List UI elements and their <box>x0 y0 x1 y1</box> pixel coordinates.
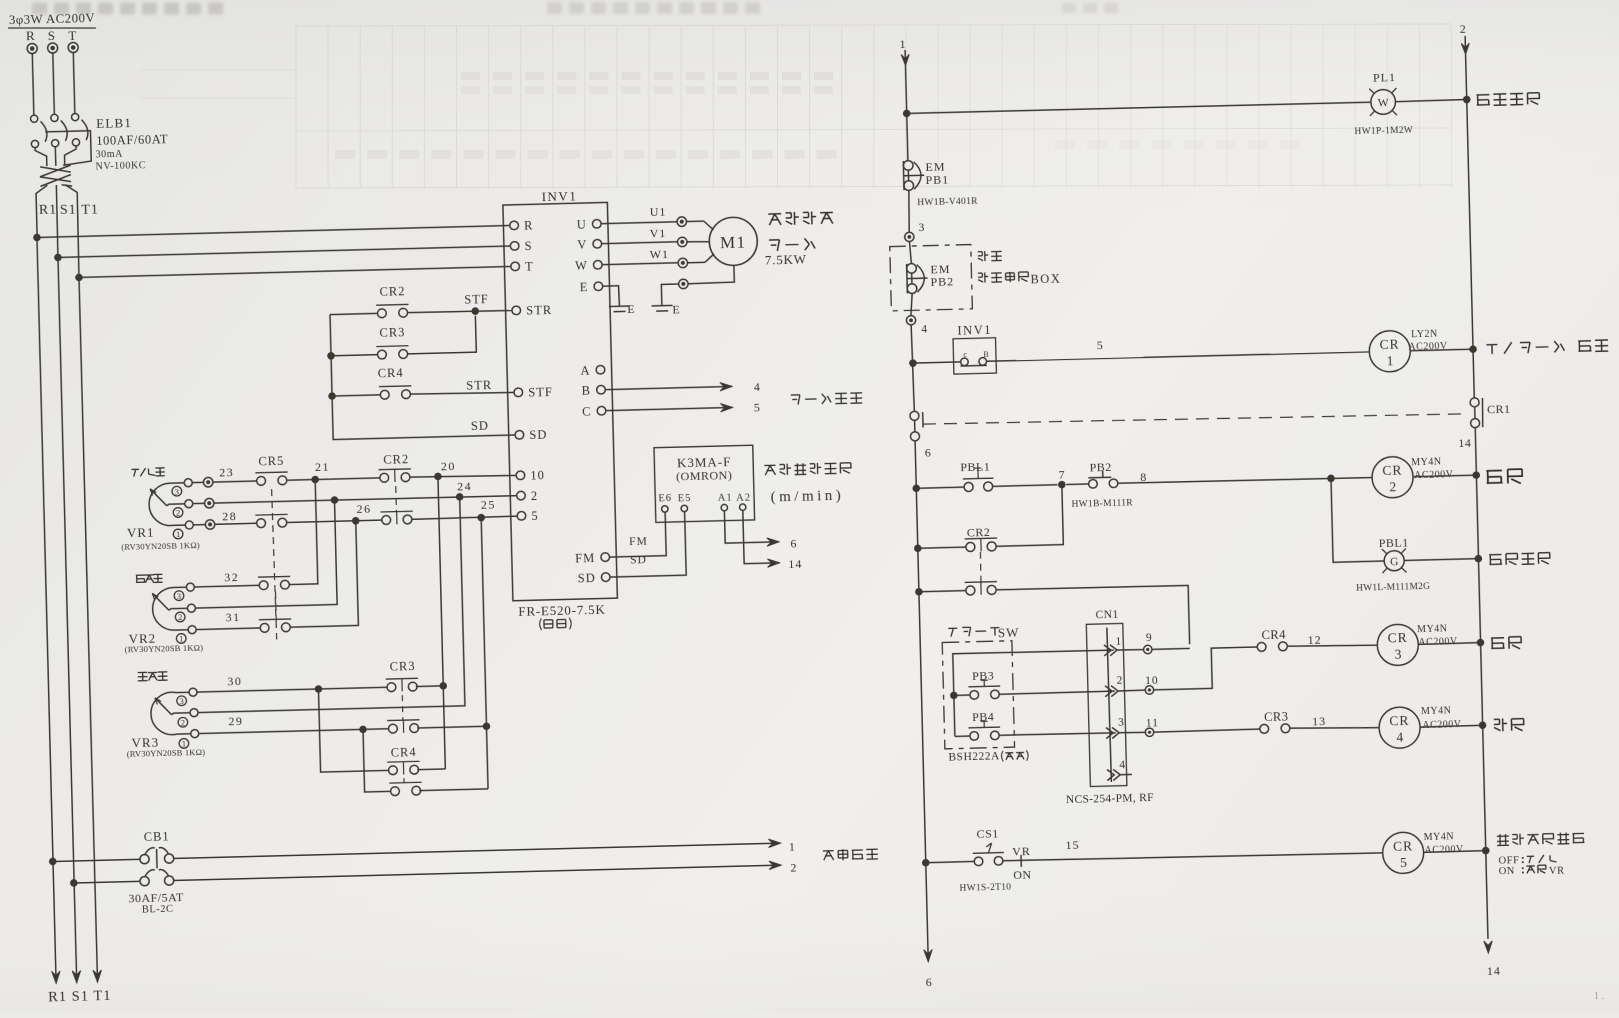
svg-text:CR: CR <box>1387 630 1407 646</box>
wire ELB1 pole T to ZCT <box>64 146 76 166</box>
svg-text:S: S <box>524 239 532 253</box>
wire inverter U to motor <box>602 222 678 224</box>
connector CN1 spine <box>1107 628 1112 782</box>
wire terminal 10 up to forward rung <box>1153 647 1258 690</box>
inverter pin W <box>593 260 602 269</box>
breaker ELB1 pole S <box>51 114 58 121</box>
svg-text:10: 10 <box>530 468 545 482</box>
svg-text:11: 11 <box>1146 717 1159 729</box>
svg-text:4: 4 <box>921 323 928 335</box>
inverter pin FM <box>601 553 610 562</box>
breaker CB1 trip line <box>156 849 158 868</box>
pushbutton EM PB1 (NC emergency) <box>902 161 905 190</box>
terminal 28 <box>193 524 205 526</box>
node on 20-vertical <box>439 682 447 690</box>
inverter pin SD <box>515 430 524 439</box>
svg-text:BL-2C: BL-2C <box>142 904 174 916</box>
label リモートSW <box>948 627 999 637</box>
svg-text:CR: CR <box>1389 713 1409 729</box>
inverter pin 2 <box>517 491 526 500</box>
svg-text:25: 25 <box>481 498 496 512</box>
wire CR2 contact to STR pin <box>408 310 512 313</box>
svg-text:100AF/60AT: 100AF/60AT <box>96 132 168 148</box>
node 30 branch <box>315 685 323 693</box>
svg-text:V1: V1 <box>649 226 666 240</box>
wire node4 down rail <box>911 325 914 411</box>
relay coil CR1 <box>1369 330 1411 372</box>
wire T1 to inverter T <box>79 266 511 277</box>
wire R1 to inverter R <box>37 226 510 238</box>
node 21 <box>287 478 380 480</box>
contact CR3 (to STR) <box>376 346 409 359</box>
wire terminal 11 to CR3 contact <box>1154 729 1260 732</box>
label 引取速度表示 (m/min) <box>764 462 851 475</box>
inverter pin STR <box>512 306 521 315</box>
svg-text:SD: SD <box>529 428 547 442</box>
label manual 手動用 <box>136 574 163 583</box>
svg-text:CR3: CR3 <box>379 325 405 340</box>
svg-text:CR2: CR2 <box>379 284 405 299</box>
wire CR4 contact to STF pin <box>410 391 514 395</box>
contact CR2 pole2 (row 5) <box>381 511 414 525</box>
wire PB3 to CN1 pin2 <box>999 691 1115 694</box>
wire CR3 contact to CR4 coil, wire 13 <box>1290 726 1379 730</box>
wire PB2 to node 4 <box>910 293 912 315</box>
contact CR5 pole4 (31) <box>259 619 292 632</box>
svg-text:4: 4 <box>754 380 761 394</box>
svg-text:5: 5 <box>1400 855 1407 870</box>
svg-text:1: 1 <box>176 529 181 539</box>
label 外部 非常停止BOX <box>978 251 1002 262</box>
wire inverter C fault contact <box>606 407 732 410</box>
wire inverter E pin to earth <box>603 286 620 306</box>
label インバータ 正常 <box>1486 340 1608 354</box>
wire CR4 pole2 out up to 25-vertical <box>419 789 488 791</box>
label dancer ダンサ用 <box>131 468 164 477</box>
wire INV1 contact to CR1 coil, wire number 5 <box>987 352 1370 362</box>
svg-text:2: 2 <box>531 489 539 503</box>
mechanical link CR2 contacts <box>980 552 981 586</box>
svg-text:R1: R1 <box>39 203 58 218</box>
contact CR2 holding <box>918 547 966 548</box>
potentiometer VR2 (manual) <box>186 583 194 591</box>
svg-text:1: 1 <box>1115 636 1122 648</box>
svg-text:32: 32 <box>224 570 239 584</box>
node right rail CR1 <box>1469 345 1477 353</box>
svg-text:A1: A1 <box>718 493 733 504</box>
inverter INV1 box <box>503 202 617 600</box>
svg-text:6: 6 <box>926 975 933 989</box>
breaker ELB1 pole R <box>30 115 37 122</box>
inverter run contact INV1 box <box>953 338 996 374</box>
mechanical link CR4 poles <box>403 778 405 783</box>
wire CR2 remote feed to terminal 9 drop <box>996 585 1190 649</box>
wire 29 row <box>199 729 388 734</box>
mechanical link CR5 chain <box>272 489 277 639</box>
node VR2 wiper joins <box>331 496 339 504</box>
terminal 10 <box>1118 689 1145 692</box>
wire left rail lower <box>915 441 928 948</box>
label 速度設定切換 <box>1497 832 1585 845</box>
terminal 9 <box>1117 648 1143 651</box>
VR1 terminal numbers <box>172 486 182 496</box>
earth-leakage ZCT zigzag winding <box>40 165 73 187</box>
svg-text:HW1S-2T10: HW1S-2T10 <box>959 883 1011 894</box>
svg-text:T1: T1 <box>81 203 99 218</box>
wire vertical from node 20 <box>438 476 445 769</box>
svg-text:CR1: CR1 <box>1487 402 1511 417</box>
svg-text:(m/min): (m/min) <box>770 488 844 506</box>
inverter pin R <box>510 221 519 230</box>
wire CR3 contact up to STF junction <box>407 316 477 354</box>
label 正転 <box>1491 637 1521 650</box>
wire ELB1 pole S to ZCT <box>54 147 57 166</box>
VR position mark on CS1 wire <box>1020 855 1022 867</box>
svg-text:PB1: PB1 <box>925 172 949 187</box>
inverter pin E <box>594 282 603 291</box>
node 29 branch <box>359 725 367 733</box>
wire rail contact segments <box>914 420 916 431</box>
wire bus to CR4 contact <box>332 395 380 396</box>
wire control power line 1 <box>49 858 57 866</box>
contact CR2 remote feed <box>919 591 966 592</box>
VR3 terminal numbers <box>177 696 187 706</box>
svg-text:R: R <box>26 28 36 43</box>
svg-text:CS1: CS1 <box>976 826 999 841</box>
svg-text:CR: CR <box>1393 838 1413 854</box>
svg-text:PB3: PB3 <box>972 668 995 683</box>
breaker ELB1 pole T <box>71 113 78 120</box>
wire A1 output <box>724 510 779 544</box>
inverter pin T <box>511 262 520 271</box>
wire R phase drop to ELB1 <box>32 54 34 115</box>
svg-text:3: 3 <box>175 486 180 496</box>
connector CN1 pin 1 <box>1104 645 1117 656</box>
wire T1 vertical bus <box>79 277 97 969</box>
inverter pin V <box>593 239 602 248</box>
contact CR5 pole3 (32) <box>258 576 291 589</box>
svg-text:(RV30YN20SB 1KΩ): (RV30YN20SB 1KΩ) <box>127 747 206 759</box>
inverter pin 5 <box>517 511 526 520</box>
svg-text:ON: ON <box>1013 868 1032 882</box>
wire S1 to inverter S <box>58 246 510 257</box>
svg-text:NV-100KC: NV-100KC <box>95 160 146 172</box>
wire rail to INV1 contact <box>913 362 961 363</box>
svg-text:R: R <box>524 218 534 232</box>
inverter pin U <box>592 219 601 228</box>
svg-text:VR: VR <box>1012 844 1031 858</box>
contact CR4 (to STF) <box>379 386 412 399</box>
wire motor earth lead <box>688 265 735 283</box>
svg-text:ELB1: ELB1 <box>96 115 132 131</box>
wire PL1 to right rail <box>1395 100 1466 102</box>
node on 25-vertical <box>483 722 491 730</box>
svg-text:S: S <box>48 28 57 43</box>
ground symbol at inverter <box>609 305 630 308</box>
contact CR4 interlock (forward) <box>1257 642 1287 652</box>
meter terminal E5 <box>681 505 688 512</box>
mechanical link CR2 chain <box>395 486 398 512</box>
node R1 junction <box>33 234 41 242</box>
node PL1 rung junction <box>903 110 911 118</box>
mechanical link CR3 poles <box>401 695 404 720</box>
wire ZCT to S1 drop <box>56 185 58 257</box>
ground symbol at motor <box>652 304 673 307</box>
svg-text:INV1: INV1 <box>957 323 992 338</box>
wire SD common bus <box>330 310 515 440</box>
terminal 11 <box>1119 731 1145 734</box>
node T1 junction <box>75 274 83 282</box>
svg-text:A: A <box>580 364 590 378</box>
node CS1 rung junction <box>922 859 930 867</box>
contact CR5 pole1 <box>213 481 257 482</box>
svg-text:1 .: 1 . <box>1594 991 1604 1002</box>
node S1 junction <box>54 254 62 262</box>
svg-text:SD: SD <box>471 419 489 433</box>
wire 29 branch down to CR4 pole2 <box>363 729 391 792</box>
svg-text:HW1B-V401R: HW1B-V401R <box>917 196 978 208</box>
svg-text:12: 12 <box>1307 633 1321 647</box>
contact CR1 pickup on left rail <box>910 411 919 420</box>
selector switch CS1 <box>926 861 974 862</box>
svg-text:E5: E5 <box>678 493 692 504</box>
svg-text:AC200V: AC200V <box>1422 719 1462 731</box>
svg-text:ON: ON <box>1499 866 1515 877</box>
wire S phase drop to ELB1 <box>53 53 55 114</box>
svg-text:7.5KW: 7.5KW <box>765 251 807 267</box>
breaker CB1 pole 1 <box>140 854 149 863</box>
svg-text:SW: SW <box>998 625 1020 641</box>
svg-text:A2: A2 <box>736 493 751 504</box>
inverter pin A <box>596 365 605 374</box>
svg-text:W1: W1 <box>650 247 670 261</box>
wire CR4 coil to right rail <box>1420 725 1482 727</box>
wire right rail segments at CR1 contact <box>1474 407 1476 419</box>
svg-text:2: 2 <box>1116 675 1123 687</box>
wire VR3 wiper to node 24 <box>193 497 465 713</box>
wire 32 contact up to node 21 <box>286 480 317 585</box>
svg-text:30mA: 30mA <box>95 149 123 161</box>
svg-text:4: 4 <box>1119 759 1126 771</box>
svg-text:1: 1 <box>789 839 796 853</box>
node 25 <box>412 516 517 519</box>
wire CR3 pole out to 20-vertical <box>416 685 443 688</box>
wire bus to CR3 contact <box>331 355 377 356</box>
svg-text:3: 3 <box>1394 647 1401 662</box>
terminal 23 <box>192 481 203 483</box>
svg-text:9: 9 <box>1146 632 1153 644</box>
wire inverter W to motor <box>603 263 679 265</box>
wire CR2 coil to right rail <box>1413 475 1476 477</box>
wire T phase drop to ELB1 <box>73 52 75 113</box>
svg-text:2: 2 <box>178 612 183 622</box>
svg-text:29: 29 <box>228 714 243 728</box>
wire SD to E5 <box>609 512 686 577</box>
svg-text:VR: VR <box>1549 866 1565 877</box>
wire vertical from node 25 <box>481 518 488 789</box>
wire terminal 9 to CR2 remote feed <box>1152 647 1190 650</box>
node CR2 holding rung junction <box>914 544 922 552</box>
inverter pin STF <box>514 388 523 397</box>
meter terminal A1 <box>721 504 728 511</box>
svg-text:BOX: BOX <box>1030 271 1061 286</box>
svg-text:PB2: PB2 <box>1089 460 1112 475</box>
svg-text:NCS-254-PM, RF: NCS-254-PM, RF <box>1066 792 1154 806</box>
pushbutton PB3 (forward) <box>954 694 970 696</box>
label (三菱) <box>540 618 572 630</box>
contact CR5 pole2 (row 5) <box>215 523 257 524</box>
svg-text:CR4: CR4 <box>391 745 417 760</box>
svg-text:HW1P-1M2W: HW1P-1M2W <box>1354 126 1413 137</box>
svg-text:CR: CR <box>1379 337 1399 353</box>
wire left rail upper <box>905 50 908 161</box>
svg-text:c: c <box>963 350 968 359</box>
motor M1 <box>709 217 758 266</box>
terminal W1 <box>678 258 688 268</box>
svg-text:U: U <box>577 218 587 232</box>
svg-text:STR: STR <box>466 378 492 393</box>
wire CR3 coil to right rail <box>1418 643 1480 645</box>
svg-text:U1: U1 <box>650 205 667 219</box>
mechanical dashed link CR1 <box>923 410 1469 427</box>
wire remote common <box>953 650 1116 737</box>
svg-text:CR2: CR2 <box>967 525 991 540</box>
svg-text:M1: M1 <box>720 233 747 253</box>
svg-text:CR3: CR3 <box>389 659 415 674</box>
svg-text:CR4: CR4 <box>378 366 404 381</box>
lamp PL1 (white) <box>1369 88 1397 116</box>
svg-text:1: 1 <box>1386 353 1393 368</box>
wire A2 output <box>743 510 780 564</box>
svg-text:(RV30YN20SB 1KΩ): (RV30YN20SB 1KΩ) <box>125 643 204 655</box>
wire ELB1 pole R to ZCT <box>35 147 47 166</box>
svg-text:(RV30YN20SB 1KΩ): (RV30YN20SB 1KΩ) <box>121 540 200 552</box>
svg-text:PB4: PB4 <box>972 709 995 724</box>
node bus-CR3 <box>327 352 335 360</box>
svg-text:PBL1: PBL1 <box>1379 535 1409 550</box>
svg-text:SD: SD <box>578 571 596 585</box>
label 運転 <box>1486 469 1522 484</box>
svg-text:E: E <box>627 302 636 316</box>
meter terminal E6 <box>662 506 669 513</box>
contact CR4 pole1 <box>387 761 420 775</box>
label 引取駆動モータ 7.5KW <box>768 211 833 225</box>
svg-text:STF: STF <box>464 292 489 307</box>
label jog 寸動用 <box>138 672 168 681</box>
svg-text:5: 5 <box>1097 338 1104 352</box>
wire R1 vertical bus <box>37 237 56 970</box>
svg-text:MY4N: MY4N <box>1411 457 1442 469</box>
svg-text:STR: STR <box>526 303 552 318</box>
arrow right rail bottom, line 14 <box>1484 941 1493 953</box>
svg-text:CR2: CR2 <box>383 452 409 467</box>
svg-text:2: 2 <box>181 717 186 727</box>
external emergency stop box (dashed) <box>890 245 973 311</box>
inverter pin S <box>510 241 519 250</box>
svg-text:FM: FM <box>629 536 648 548</box>
svg-text:3: 3 <box>179 696 184 706</box>
node INV1 rung junction <box>909 359 917 367</box>
wire PB4 to CN1 pin3 <box>1000 732 1116 735</box>
wire CR1 coil to right rail <box>1410 349 1473 351</box>
svg-text:PBL1: PBL1 <box>960 459 990 474</box>
wire 31 row <box>197 628 261 630</box>
terminal E1 <box>679 279 689 289</box>
svg-text:2: 2 <box>1460 22 1467 36</box>
wire PB2 to CR2 coil, wire number 8 <box>1118 477 1372 484</box>
relay coil CR4 <box>1379 707 1421 749</box>
svg-text:BSH222A: BSH222A <box>948 750 1000 763</box>
wire G lamp to right rail <box>1404 559 1478 561</box>
lamp PBL1 green (run indication) <box>1382 548 1407 573</box>
arrow R1 outgoing <box>55 970 57 983</box>
wire CR3 pole2 out to 25-vertical <box>417 726 486 728</box>
node 4 <box>906 316 915 325</box>
svg-text:30: 30 <box>227 674 242 688</box>
svg-text:24: 24 <box>457 479 472 493</box>
pushbutton EM PB2 (NC emergency) <box>906 264 909 293</box>
node right rail G lamp <box>1474 555 1482 563</box>
svg-text:INV1: INV1 <box>541 188 577 204</box>
label 電源表示 <box>1476 93 1539 106</box>
svg-text:T: T <box>525 259 534 273</box>
connector CN1 pin 2 <box>1105 685 1118 696</box>
svg-text:3: 3 <box>1118 717 1125 729</box>
svg-text:PB2: PB2 <box>930 274 954 289</box>
svg-text:B: B <box>581 384 591 398</box>
svg-text:PL1: PL1 <box>1373 70 1396 85</box>
wire VR1 wiper to pin 2 <box>214 495 517 503</box>
wire inverter B fault contact <box>606 386 732 389</box>
svg-text:FM: FM <box>575 551 595 566</box>
svg-text:5: 5 <box>531 509 539 523</box>
svg-text:14: 14 <box>1458 436 1471 450</box>
svg-text:FR-E520-7.5K: FR-E520-7.5K <box>518 602 606 619</box>
contact CR3 pole (30 to pin10) <box>386 678 419 692</box>
svg-text:20: 20 <box>441 459 456 473</box>
wire 32 row <box>195 585 260 587</box>
potentiometer VR1 (dancer) <box>184 479 192 487</box>
node common-PB3 <box>950 692 958 700</box>
contact CR2 pole (row 10) <box>379 469 412 483</box>
VR2 terminal numbers <box>174 591 184 601</box>
label 運転表示 <box>1489 553 1550 566</box>
relay coil CR3 <box>1377 624 1419 666</box>
svg-text:STF: STF <box>528 385 553 400</box>
inverter pin 10 <box>516 471 525 480</box>
wire PL1 rung <box>907 102 1371 114</box>
svg-text:CB1: CB1 <box>144 829 170 844</box>
connector CN1 box <box>1086 623 1127 786</box>
terminal V1 <box>677 237 687 247</box>
svg-text:2: 2 <box>790 860 797 874</box>
svg-text:3: 3 <box>918 222 925 234</box>
svg-text:4: 4 <box>1396 730 1403 745</box>
arrow S1 outgoing <box>75 970 77 983</box>
svg-text:AC200V: AC200V <box>1424 844 1464 856</box>
contact CR3 pole2 (29 to pin5) <box>387 720 420 734</box>
wire 31 contact up to node 26 <box>287 521 358 627</box>
svg-text:1: 1 <box>899 37 906 51</box>
node 20 <box>410 474 516 478</box>
wire FM to E6 <box>609 512 666 557</box>
node right rail PL1 <box>1463 96 1471 104</box>
wire 30 branch down to CR4 pole <box>318 687 388 772</box>
svg-text:VR1: VR1 <box>127 525 155 541</box>
svg-text:MY4N: MY4N <box>1421 705 1452 717</box>
svg-text:W: W <box>1378 97 1389 109</box>
wire CR4 pole1 out up to 20-vertical <box>417 768 445 771</box>
